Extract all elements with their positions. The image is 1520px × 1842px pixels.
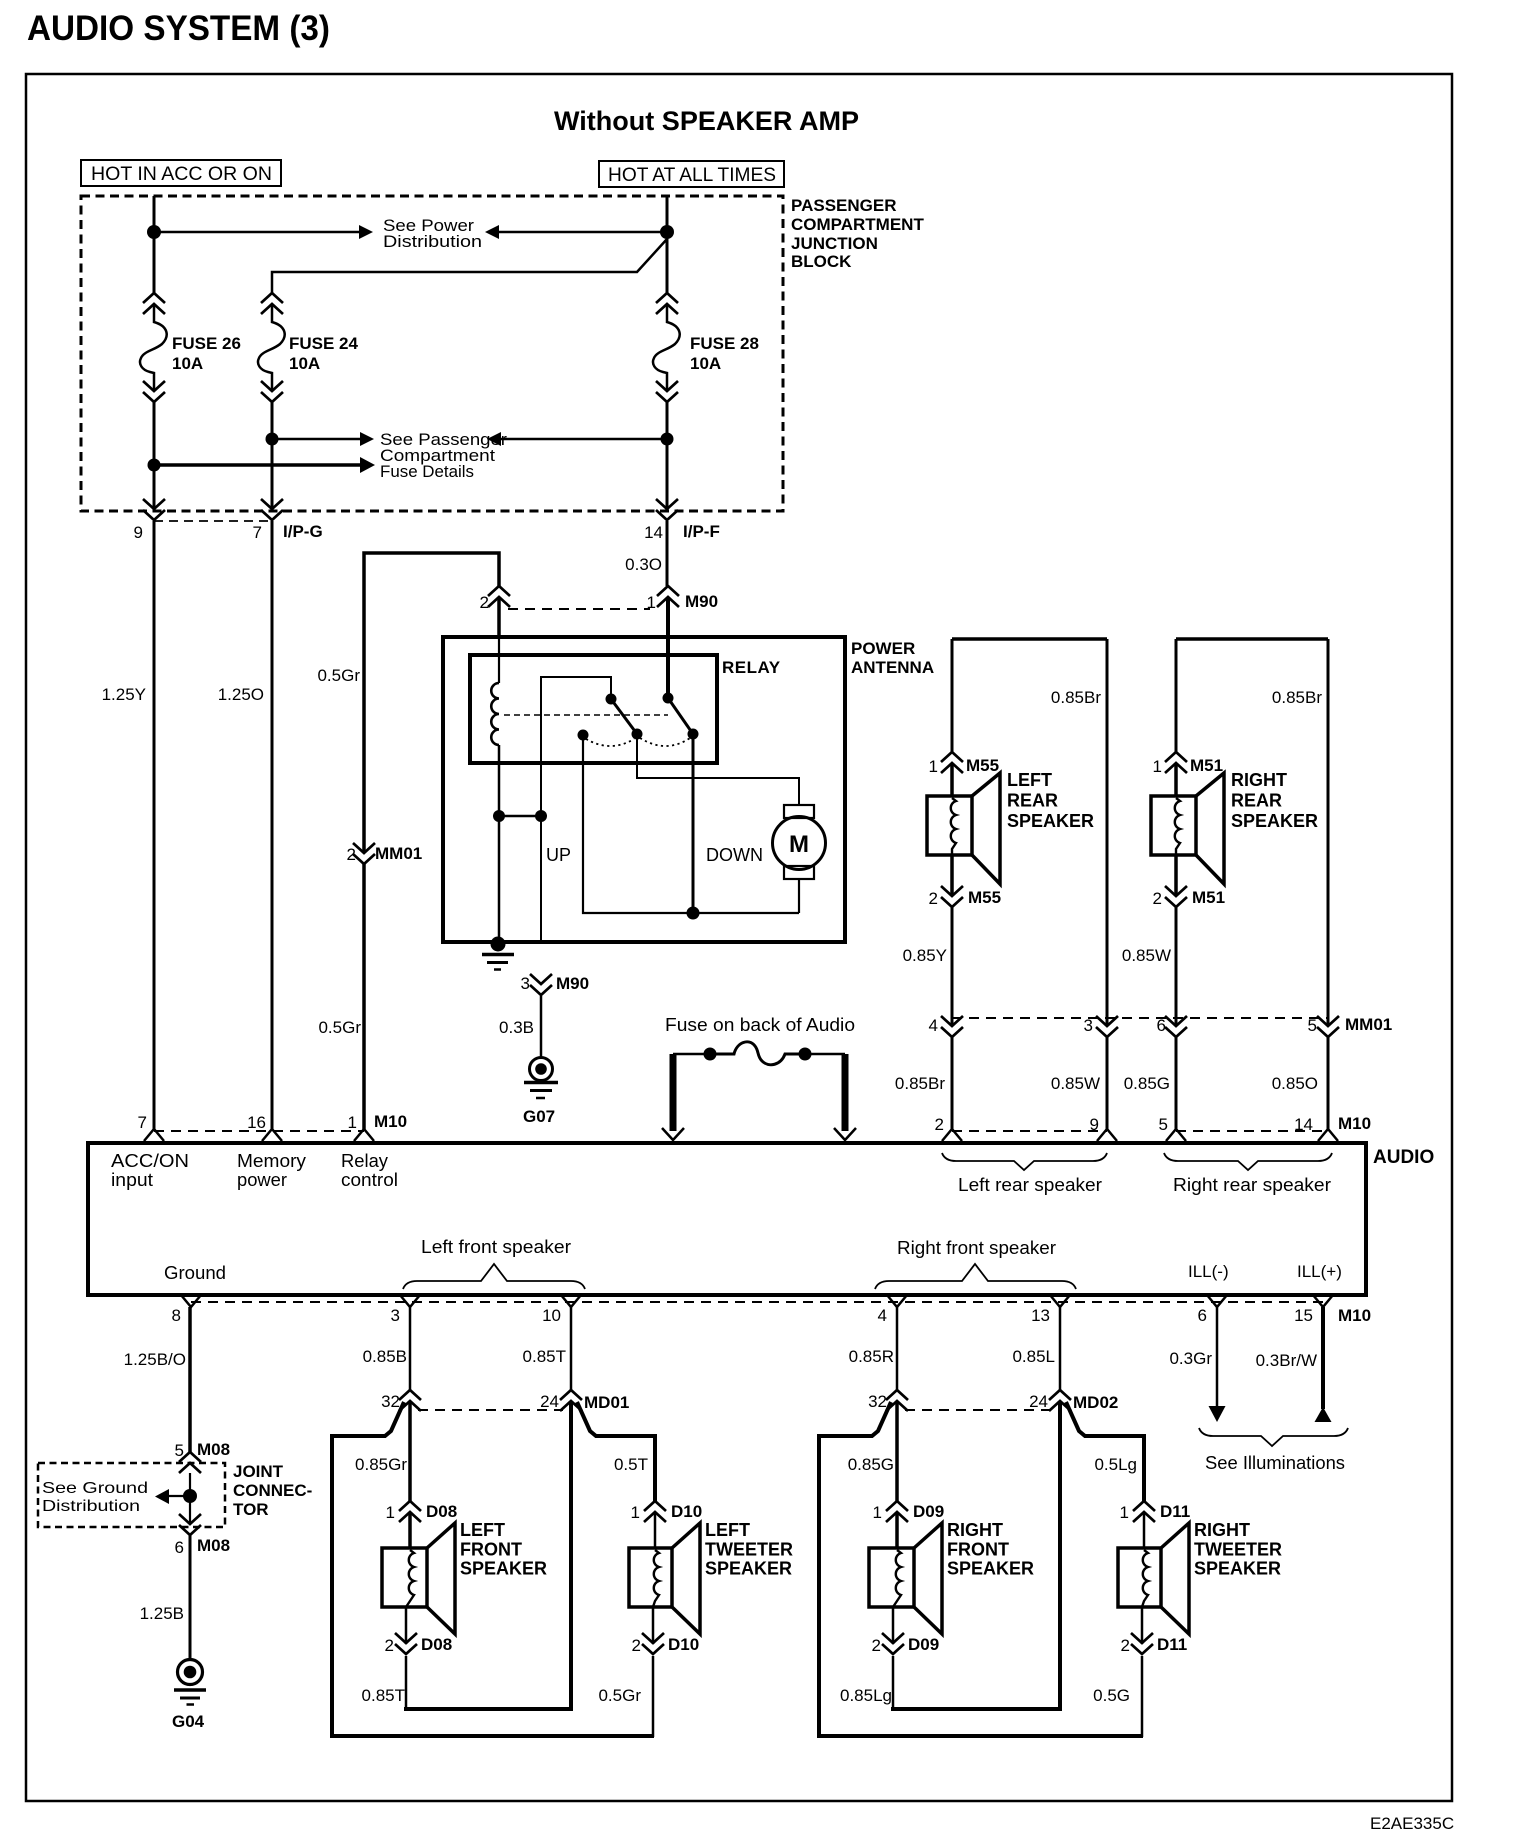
internal ground symbol at antenna box bottom: [491, 937, 506, 952]
audio pin 5: [1166, 1129, 1186, 1141]
svg-text:3: 3: [391, 1306, 400, 1325]
svg-text:6: 6: [175, 1538, 184, 1557]
audio bottom pin 3: [400, 1295, 420, 1307]
svg-text:0.85B: 0.85B: [363, 1347, 407, 1366]
connector dashed link pins 9-7: [154, 520, 272, 522]
svg-text:TOR: TOR: [233, 1500, 269, 1519]
audio bottom pin 13: [1050, 1295, 1070, 1307]
svg-text:1: 1: [348, 1113, 357, 1132]
dotted linkage arcs: [586, 739, 634, 746]
svg-text:RIGHT: RIGHT: [1231, 770, 1287, 790]
node: coil-ground junction: [493, 810, 505, 822]
speaker LEFT FRONT SPEAKER: [382, 1548, 427, 1607]
fuse loop legs: [670, 1054, 677, 1131]
svg-text:HOT AT ALL TIMES: HOT AT ALL TIMES: [608, 165, 776, 186]
relay lower contact R: [688, 729, 699, 740]
svg-text:1: 1: [386, 1503, 395, 1522]
svg-text:0.85Y: 0.85Y: [903, 946, 947, 965]
svg-text:MM01: MM01: [375, 844, 422, 863]
audio pin 7: [144, 1129, 164, 1141]
audio unit box: [88, 1143, 1366, 1295]
svg-text:2: 2: [347, 845, 356, 864]
svg-text:MD02: MD02: [1073, 1393, 1118, 1412]
wire 0.85G to woofer: [895, 1401, 899, 1501]
wire 0.85R audio to MD02: [896, 1307, 899, 1390]
wire: RIGHT|REAR|SPEAKER + feed: [1175, 639, 1178, 752]
wire: LEFT|REAR|SPEAKER loop top bar: [952, 637, 1107, 641]
svg-text:5: 5: [175, 1441, 184, 1460]
node: on UP wire: [535, 810, 547, 822]
connector M10 dashed bottom row: [191, 1301, 1323, 1303]
svg-text:See Illuminations: See Illuminations: [1205, 1453, 1345, 1473]
wire: fuse 24 output: [271, 402, 274, 510]
wire 0.5Gr tweeter return: [652, 1607, 655, 1644]
connector M90 pin 2: [488, 586, 510, 596]
speaker RIGHT|REAR|SPEAKER: [1151, 796, 1196, 855]
audio pin 16: [262, 1129, 282, 1141]
wire: diagonal feed to fuse 24: [272, 239, 667, 293]
svg-text:M10: M10: [1338, 1306, 1371, 1325]
svg-text:13: 13: [1031, 1306, 1050, 1325]
svg-text:2: 2: [872, 1636, 881, 1655]
connector D10 pin 1: [644, 1501, 666, 1511]
relay blade B: [668, 698, 693, 734]
svg-text:0.85T: 0.85T: [362, 1686, 405, 1705]
svg-text:FRONT: FRONT: [947, 1539, 1009, 1559]
connector D11 pin 2: [1131, 1633, 1153, 1643]
node: junction to fuse-details arrow (fuse 28): [661, 433, 674, 446]
svg-text:G04: G04: [172, 1712, 205, 1731]
svg-text:8: 8: [172, 1306, 181, 1325]
svg-text:JUNCTION: JUNCTION: [791, 234, 878, 253]
svg-text:0.85O: 0.85O: [1272, 1074, 1318, 1093]
svg-text:FUSE 28: FUSE 28: [690, 334, 759, 353]
connector D08 pin 2: [395, 1633, 417, 1643]
svg-text:16: 16: [247, 1113, 266, 1132]
svg-text:D09: D09: [908, 1635, 939, 1654]
svg-text:0.85Br: 0.85Br: [1051, 688, 1101, 707]
svg-text:0.85Br: 0.85Br: [895, 1074, 945, 1093]
svg-text:14: 14: [644, 523, 663, 542]
connector D09 pin 1: [886, 1501, 908, 1511]
svg-text:0.3Gr: 0.3Gr: [1169, 1349, 1212, 1368]
svg-text:AUDIO SYSTEM (3): AUDIO SYSTEM (3): [27, 9, 330, 48]
svg-text:input: input: [111, 1170, 153, 1190]
svg-text:0.3Br/W: 0.3Br/W: [1256, 1351, 1317, 1370]
wire: fuse 28 output: [666, 402, 669, 510]
svg-text:POWER: POWER: [851, 639, 915, 658]
connector dashed link: [905, 1409, 1052, 1411]
svg-text:M51: M51: [1192, 888, 1225, 907]
fuse F28: [656, 293, 678, 303]
svg-text:M90: M90: [556, 974, 589, 993]
relay contact node A: [606, 694, 617, 705]
wire 0.3Gr ILL(-): [1216, 1307, 1219, 1407]
connector M08 pin 5: [179, 1452, 201, 1462]
wire 0.3O: fuse 28 to relay connector M90: [666, 521, 669, 586]
connector D08 pin 1: [399, 1501, 421, 1511]
svg-text:COMPARTMENT: COMPARTMENT: [791, 215, 924, 234]
svg-text:M10: M10: [374, 1112, 407, 1131]
audio bottom pin 10: [561, 1295, 581, 1307]
svg-text:D08: D08: [426, 1502, 457, 1521]
svg-text:6: 6: [1198, 1306, 1207, 1325]
wire 1.25B/O audio ground: [188, 1307, 192, 1452]
svg-text:ANTENNA: ANTENNA: [851, 658, 934, 677]
connector MM01 pin 6: [1165, 1016, 1187, 1026]
wire: see power distribution arrow left from fuse 28 wire: [498, 231, 667, 234]
svg-text:24: 24: [1029, 1392, 1048, 1411]
svg-text:MD01: MD01: [584, 1393, 629, 1412]
svg-text:1: 1: [1153, 757, 1162, 776]
svg-text:LEFT: LEFT: [705, 1520, 750, 1540]
connector D11 pin 1: [1133, 1501, 1155, 1511]
svg-text:SPEAKER: SPEAKER: [460, 1559, 547, 1579]
audio bottom pin 6: [1207, 1295, 1227, 1307]
audio pin 9: [1097, 1129, 1117, 1141]
wire woofer return: [892, 1607, 895, 1644]
svg-text:0.3B: 0.3B: [499, 1018, 534, 1037]
svg-text:power: power: [237, 1170, 287, 1190]
svg-text:0.5Gr: 0.5Gr: [317, 666, 360, 685]
svg-text:SPEAKER: SPEAKER: [947, 1559, 1034, 1579]
connector MM01 pin 5: [1317, 1016, 1339, 1026]
audio bottom pin 8: [181, 1295, 201, 1307]
svg-text:D08: D08: [421, 1635, 452, 1654]
svg-text:10A: 10A: [172, 354, 203, 373]
svg-text:ILL(+): ILL(+): [1297, 1262, 1342, 1281]
svg-text:0.85Lg: 0.85Lg: [840, 1686, 892, 1705]
node: junction to fuse-details arrow (fuse 26): [148, 459, 161, 472]
svg-text:0.85R: 0.85R: [849, 1347, 894, 1366]
relay internal dashed axis: [504, 714, 668, 716]
svg-text:2: 2: [632, 1636, 641, 1655]
svg-text:M90: M90: [685, 592, 718, 611]
svg-text:See Ground: See Ground: [42, 1480, 148, 1497]
svg-text:REAR: REAR: [1231, 791, 1282, 811]
svg-text:D09: D09: [913, 1502, 944, 1521]
svg-text:SPEAKER: SPEAKER: [1231, 811, 1318, 831]
svg-text:M10: M10: [1338, 1114, 1371, 1133]
connector M55 pin 2: [941, 886, 963, 896]
svg-text:Left front speaker: Left front speaker: [421, 1237, 571, 1257]
wire inside joint connector: [189, 1473, 191, 1496]
svg-text:1: 1: [873, 1503, 882, 1522]
node: junction on fuse 28 wire (HOT AT ALL TIMES): [660, 225, 674, 239]
node: joint connector tap: [183, 1489, 197, 1503]
wire 0.5T tweeter feed: [577, 1402, 655, 1501]
audio pin 2: [942, 1129, 962, 1141]
svg-text:Fuse on back of Audio: Fuse on back of Audio: [665, 1015, 855, 1035]
wire 0.3Br/W ILL(+): [1321, 1307, 1325, 1409]
wire: RIGHT|REAR|SPEAKER loop top bar: [1176, 637, 1328, 641]
wire: coil to internal ground: [498, 745, 501, 942]
audio pin 1 M10: [354, 1129, 374, 1141]
wire: switch common link (UP leg): [541, 677, 611, 942]
speaker LEFT|REAR|SPEAKER: [927, 796, 972, 855]
wire from speaker: [950, 855, 954, 896]
svg-text:JOINT: JOINT: [233, 1462, 284, 1481]
wire from speaker: [1174, 855, 1178, 896]
svg-text:5: 5: [1308, 1016, 1317, 1035]
connector MM01 pin 4: [941, 1016, 963, 1026]
brace see illuminations: [1199, 1428, 1348, 1446]
connector MD02 pin 24: [1049, 1390, 1071, 1400]
svg-text:M: M: [789, 831, 809, 858]
svg-text:Without SPEAKER AMP: Without SPEAKER AMP: [554, 106, 859, 136]
motor M: terminals and body: [784, 805, 814, 818]
svg-text:D11: D11: [1160, 1502, 1190, 1521]
svg-text:DOWN: DOWN: [706, 845, 763, 865]
svg-text:32: 32: [381, 1392, 400, 1411]
svg-text:0.85W: 0.85W: [1051, 1074, 1100, 1093]
node: junction to fuse-details arrow (fuse 24): [266, 433, 279, 446]
svg-text:Right rear speaker: Right rear speaker: [1173, 1175, 1331, 1195]
svg-text:REAR: REAR: [1007, 791, 1058, 811]
speaker LEFT TWEETER SPEAKER: [629, 1548, 672, 1607]
svg-text:4: 4: [929, 1016, 938, 1035]
svg-text:ILL(-): ILL(-): [1188, 1262, 1229, 1281]
wire 0.85W down to MM01: [1175, 907, 1178, 1026]
svg-text:control: control: [341, 1170, 398, 1190]
svg-text:32: 32: [868, 1392, 887, 1411]
wire: motor bottom lead: [798, 879, 800, 913]
connector M90 pin 1: [657, 586, 679, 596]
wire 0.85T audio to MD01: [570, 1307, 573, 1390]
wire: M90 pin2 into relay coil: [497, 597, 501, 637]
speaker RIGHT TWEETER SPEAKER: [1118, 1548, 1161, 1607]
svg-text:PASSENGER: PASSENGER: [791, 196, 897, 215]
svg-text:0.3O: 0.3O: [625, 555, 662, 574]
label HOT AT ALL TIMES: [599, 161, 784, 187]
svg-text:1.25O: 1.25O: [218, 685, 264, 704]
svg-text:0.85Br: 0.85Br: [1272, 688, 1322, 707]
power antenna box: [443, 637, 845, 942]
svg-text:15: 15: [1294, 1306, 1313, 1325]
wire + arrow to see ground distribution: [168, 1495, 190, 1497]
wire tweeter return outer loop: [332, 1402, 654, 1736]
svg-text:1: 1: [631, 1503, 640, 1522]
wire 1.25O: memory power to audio pin 16: [271, 521, 274, 1129]
svg-text:E2AE335C: E2AE335C: [1370, 1814, 1454, 1833]
svg-text:M08: M08: [197, 1440, 230, 1459]
wires MM01 to audio M10 pins: [951, 1037, 954, 1129]
brace right rear speaker: [1164, 1153, 1332, 1170]
connector MD01 pin 24: [560, 1390, 582, 1400]
wire: DOWN leg contact R: [692, 734, 695, 913]
svg-text:1.25B/O: 1.25B/O: [124, 1350, 186, 1369]
svg-text:HOT IN ACC OR ON: HOT IN ACC OR ON: [91, 164, 272, 185]
svg-text:Right front speaker: Right front speaker: [897, 1238, 1056, 1258]
svg-text:0.5Gr: 0.5Gr: [598, 1686, 641, 1705]
joint connector dashed box: [38, 1463, 225, 1527]
wire: fuse 28 feed (HOT AT ALL TIMES): [666, 196, 669, 293]
relay lower contact L: [578, 730, 589, 741]
audio bottom pin 4: [887, 1295, 907, 1307]
svg-text:9: 9: [1090, 1115, 1099, 1134]
svg-text:TWEETER: TWEETER: [1194, 1539, 1282, 1559]
wire 0.85Lg woofer return loop: [892, 1656, 895, 1709]
svg-text:RIGHT: RIGHT: [947, 1520, 1003, 1540]
svg-text:1: 1: [929, 757, 938, 776]
connector M51 pin 2: [1165, 886, 1187, 896]
relay box: [470, 655, 717, 763]
svg-text:D10: D10: [668, 1635, 699, 1654]
connector pin 9 (junction block exit): [143, 499, 165, 509]
svg-text:0.85G: 0.85G: [848, 1455, 894, 1474]
wire: fuse 26 feed (HOT IN ACC OR ON): [153, 196, 156, 293]
svg-text:2: 2: [385, 1636, 394, 1655]
wire tweeter return outer loop: [819, 1402, 1143, 1736]
svg-text:Distribution: Distribution: [42, 1498, 140, 1515]
wire into speaker: [1174, 763, 1178, 796]
wire: see power distribution arrow right: [154, 231, 359, 234]
svg-text:5: 5: [1159, 1115, 1168, 1134]
svg-text:10A: 10A: [289, 354, 320, 373]
svg-text:Distribution: Distribution: [383, 232, 482, 251]
fuse F26: [143, 293, 165, 303]
connector dashed link: [418, 1409, 563, 1411]
svg-text:G07: G07: [523, 1107, 555, 1126]
wire 0.85B audio to MD01: [409, 1307, 412, 1390]
connector MM01 dashed line: [952, 1017, 1328, 1019]
wire 0.85Br return down to MM01: [1106, 639, 1109, 1026]
wire 0.5G tweeter return: [1141, 1607, 1144, 1644]
svg-text:0.5G: 0.5G: [1093, 1686, 1130, 1705]
label HOT IN ACC OR ON: [81, 160, 281, 186]
svg-text:1: 1: [1120, 1503, 1129, 1522]
svg-text:14: 14: [1294, 1115, 1313, 1134]
connector M51 pin 1: [1165, 752, 1187, 762]
wire: fuse 26 output: [153, 402, 156, 510]
fuse element: [673, 1053, 710, 1056]
svg-text:0.85L: 0.85L: [1012, 1347, 1055, 1366]
connector M10 dashed (pins 5,14): [1176, 1130, 1328, 1132]
wire: see passenger compartment arrow left (from fuse 28): [500, 438, 667, 441]
svg-text:MM01: MM01: [1345, 1015, 1392, 1034]
svg-text:SPEAKER: SPEAKER: [705, 1559, 792, 1579]
svg-text:4: 4: [878, 1306, 887, 1325]
svg-text:RIGHT: RIGHT: [1194, 1520, 1250, 1540]
ground G07 symbol: [530, 1058, 553, 1081]
svg-text:ACC/ON: ACC/ON: [111, 1151, 189, 1171]
wire: see passenger compartment arrow right (from fuse 26, thick): [154, 463, 360, 467]
wire woofer return: [405, 1607, 408, 1644]
svg-text:SPEAKER: SPEAKER: [1007, 811, 1094, 831]
wire: LEFT|REAR|SPEAKER + feed: [951, 639, 954, 752]
svg-text:0.85Gr: 0.85Gr: [355, 1455, 407, 1474]
svg-text:1.25Y: 1.25Y: [102, 685, 146, 704]
connector D10 pin 2: [642, 1633, 664, 1643]
svg-text:2: 2: [1153, 889, 1162, 908]
connector pin 7 I/P-G: [261, 499, 283, 509]
svg-text:I/P-G: I/P-G: [283, 522, 323, 541]
svg-text:Ground: Ground: [164, 1263, 226, 1283]
svg-text:0.85G: 0.85G: [1124, 1074, 1170, 1093]
svg-text:Memory: Memory: [237, 1151, 306, 1171]
svg-text:1.25B: 1.25B: [140, 1604, 184, 1623]
connector MD02 pin 32: [886, 1390, 908, 1400]
svg-text:3: 3: [521, 974, 530, 993]
svg-text:0.5Lg: 0.5Lg: [1094, 1455, 1137, 1474]
relay blade A: [611, 699, 637, 734]
svg-text:10: 10: [542, 1306, 561, 1325]
wire 1.25B to ground G04: [189, 1535, 192, 1659]
svg-text:Fuse Details: Fuse Details: [380, 462, 474, 481]
svg-text:BLOCK: BLOCK: [791, 252, 852, 271]
wire 0.5Gr: relay control path from audio pin 1: [364, 553, 499, 1129]
connector M55 pin 1: [941, 752, 963, 762]
svg-text:2: 2: [935, 1115, 944, 1134]
svg-text:0.85T: 0.85T: [523, 1347, 566, 1366]
wire 0.85Y down to MM01: [951, 907, 954, 1026]
wire to M08 pin 6: [189, 1496, 191, 1524]
svg-text:RELAY: RELAY: [722, 658, 781, 677]
fuse F24: [261, 293, 283, 303]
wire 1.25Y: ACC/ON feed to audio pin 7: [153, 521, 156, 1129]
svg-text:9: 9: [134, 523, 143, 542]
wire: see passenger compartment arrow right (from fuse 24): [272, 438, 360, 441]
node: junction on fuse 26 wire at power distribution tap: [147, 225, 161, 239]
connector D09 pin 2: [882, 1633, 904, 1643]
svg-text:M08: M08: [197, 1536, 230, 1555]
svg-text:I/P-F: I/P-F: [683, 522, 720, 541]
wire 0.85T woofer return loop: [405, 1656, 408, 1709]
wire 0.3B to ground G07: [540, 996, 543, 1057]
wire 0.85Br return down to MM01: [1327, 639, 1330, 1026]
relay lower contact M: [632, 729, 643, 740]
svg-text:Relay: Relay: [341, 1151, 388, 1171]
svg-text:M55: M55: [968, 888, 1001, 907]
brace left rear speaker: [942, 1153, 1107, 1170]
svg-text:UP: UP: [546, 845, 571, 865]
svg-text:LEFT: LEFT: [1007, 770, 1052, 790]
wire: contact L to motor bottom: [583, 735, 799, 913]
svg-text:TWEETER: TWEETER: [705, 1539, 793, 1559]
connector dashed link M90 pins 2-1: [508, 608, 650, 610]
svg-text:6: 6: [1157, 1016, 1166, 1035]
wire 0.85L audio to MD02: [1059, 1307, 1062, 1390]
wire 0.85Gr to woofer: [408, 1401, 412, 1501]
wire: contact M to motor top: [637, 734, 799, 805]
connector M08 pin 6: [179, 1514, 201, 1524]
svg-text:2: 2: [480, 593, 489, 612]
svg-text:SPEAKER: SPEAKER: [1194, 1559, 1281, 1579]
speaker RIGHT FRONT SPEAKER: [869, 1548, 914, 1607]
svg-text:D10: D10: [671, 1502, 702, 1521]
svg-text:FUSE 26: FUSE 26: [172, 334, 241, 353]
connector MM01 pin 2 on relay control wire: [353, 843, 375, 853]
svg-text:FUSE 24: FUSE 24: [289, 334, 359, 353]
svg-text:2: 2: [1121, 1636, 1130, 1655]
svg-text:M55: M55: [966, 756, 999, 775]
node: DOWN junction on motor return: [687, 907, 700, 920]
svg-text:3: 3: [1084, 1016, 1093, 1035]
svg-text:7: 7: [253, 523, 262, 542]
svg-text:CONNEC-: CONNEC-: [233, 1481, 312, 1500]
svg-text:24: 24: [540, 1392, 559, 1411]
svg-text:0.5Gr: 0.5Gr: [318, 1018, 361, 1037]
relay coil: [491, 683, 499, 745]
connector M10 dashed (pins 2,9): [952, 1130, 1107, 1132]
svg-text:7: 7: [138, 1113, 147, 1132]
connector M90 pin 3 (antenna ground out): [530, 974, 552, 984]
svg-text:10A: 10A: [690, 354, 721, 373]
connector MD01 pin 32: [399, 1390, 421, 1400]
svg-text:0.5T: 0.5T: [614, 1455, 648, 1474]
wire into speaker: [950, 763, 954, 796]
svg-text:2: 2: [929, 889, 938, 908]
